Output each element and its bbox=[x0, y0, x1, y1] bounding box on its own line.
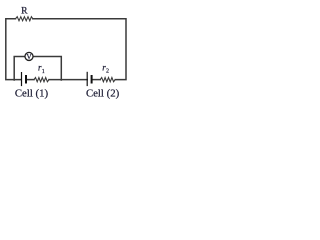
svg-text:Cell (2): Cell (2) bbox=[86, 88, 120, 100]
voltmeter branch wires bbox=[14, 57, 61, 81]
wire between cell 1 and r1 bbox=[27, 79, 34, 81]
resistor r1 bbox=[34, 78, 49, 82]
cell 2 (battery) bbox=[87, 72, 91, 86]
cell 2 long plate bbox=[86, 72, 88, 86]
svg-text:Cell (1): Cell (1) bbox=[15, 88, 49, 100]
cell 2 short plate bbox=[91, 75, 93, 84]
wire top-left stub and left side of main loop bbox=[6, 19, 21, 80]
voltmeter V circle bbox=[25, 52, 33, 60]
svg-text:1: 1 bbox=[42, 69, 45, 75]
cell 1 (battery) bbox=[22, 72, 27, 86]
wire between cell 2 and r2 bbox=[92, 79, 100, 81]
wire between r1 and cell 2 bbox=[49, 79, 87, 81]
cell 1 short plate bbox=[25, 75, 27, 84]
svg-text:V: V bbox=[26, 52, 32, 61]
resistor R bbox=[16, 17, 33, 21]
cell 1 long plate bbox=[21, 72, 23, 86]
wire top right and right side of main loop bbox=[33, 19, 126, 80]
svg-text:R: R bbox=[21, 6, 28, 17]
resistor r2 bbox=[100, 78, 115, 82]
svg-text:2: 2 bbox=[106, 69, 109, 75]
